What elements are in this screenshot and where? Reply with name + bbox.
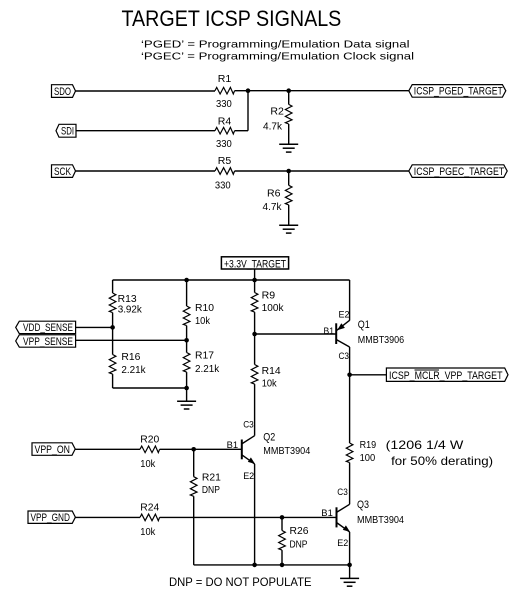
wire Q1 collector down [349,347,351,375]
svg-text:‘PGED’ = Programming/Emulation: ‘PGED’ = Programming/Emulation Data sign… [141,38,410,50]
port VPP_ON [32,443,75,456]
svg-text:10k: 10k [140,459,156,470]
node H junction dot [347,373,352,378]
node rail-R10 junction dot [184,278,189,283]
svg-text:R9: R9 [262,290,276,301]
ground bottom right [340,578,359,586]
wire R4 to riser [235,130,248,132]
svg-text:ICSP_MCLR_VPP_TARGET: ICSP_MCLR_VPP_TARGET [389,370,503,382]
power +3.3V_TARGET [221,257,288,271]
wire node B to ICSP_PGED_TARGET [289,90,409,92]
svg-text:330: 330 [216,99,232,110]
port VPP_SENSE [16,335,76,348]
svg-text:R13: R13 [118,294,137,305]
svg-text:DNP = DO NOT POPULATE: DNP = DO NOT POPULATE [169,575,312,589]
svg-text:DNP: DNP [202,485,220,496]
node F junction dot [184,386,189,391]
svg-text:4.7k: 4.7k [263,122,283,133]
node L junction dot [280,563,285,568]
port ICSP_MCLR_VPP_TARGET [386,368,508,382]
wire power rail [113,279,350,281]
port ICSP_PGED_TARGET [409,85,506,98]
node rail-R9 junction dot [252,278,257,283]
svg-text:E2: E2 [243,471,254,482]
svg-text:R6: R6 [267,189,281,200]
resistor R6 4.7k [263,171,293,225]
transistor Q2 MMBT3904 [242,431,311,464]
transistor Q3 MMBT3904 [337,499,405,532]
node J junction dot [280,515,285,520]
svg-text:2.21k: 2.21k [195,364,220,375]
resistor R10 10k [183,280,214,340]
svg-text:+3.3V_TARGET: +3.3V_TARGET [224,258,286,270]
port SDO [52,85,76,98]
resistor R24 10k [140,503,160,539]
node K junction dot [252,563,257,568]
wire riser to node A [247,91,249,131]
svg-text:C3: C3 [339,351,350,362]
wire node F to ground [186,388,188,401]
resistor R16 2.21k [109,327,146,388]
resistor R14 10k [251,334,281,436]
svg-text:R21: R21 [202,473,221,484]
node C junction dot [286,169,291,174]
port VDD_SENSE [16,321,76,334]
svg-text:for 50% derating): for 50% derating) [391,454,493,468]
svg-text:R26: R26 [290,526,309,537]
ground below R2 [279,144,298,152]
wire node A to node B [248,90,289,92]
wire VDD_SENSE to node D [76,326,113,328]
resistor R9 100k [251,280,284,334]
svg-text:R16: R16 [121,352,140,363]
wire node G to Q1 base [255,333,337,335]
svg-text:4.7k: 4.7k [263,202,283,213]
wire Q3 emitter down [349,532,351,565]
wire node C to ICSP_PGEC_TARGET [289,170,409,172]
svg-text:VPP_SENSE: VPP_SENSE [23,336,73,348]
svg-text:R20: R20 [140,434,159,445]
svg-text:MMBT3904: MMBT3904 [263,445,310,457]
resistor R5 330 [215,156,235,192]
resistor R26 DNP [279,517,309,565]
svg-text:Q2: Q2 [263,431,275,443]
svg-text:MMBT3904: MMBT3904 [357,514,404,526]
svg-text:330: 330 [216,139,232,150]
svg-text:100: 100 [360,453,376,464]
svg-text:MMBT3906: MMBT3906 [358,334,404,346]
wire power stem [254,269,256,280]
ground below R6 [279,225,298,233]
svg-text:10k: 10k [262,379,278,390]
svg-text:E2: E2 [337,538,348,549]
transistor Q1 MMBT3906 [336,319,404,347]
svg-text:SDO: SDO [54,86,71,98]
wire VPP_GND to R24 [75,516,140,518]
svg-text:R1: R1 [218,74,232,85]
svg-text:C3: C3 [337,487,348,498]
svg-text:R2: R2 [270,106,284,117]
wire VPP_ON to R20 [75,448,140,450]
node B junction dot [286,88,291,93]
resistor R4 330 [215,117,235,150]
wire R5 to node C [235,170,289,172]
svg-text:ICSP_PGED_TARGET: ICSP_PGED_TARGET [414,86,503,98]
node A junction dot [246,88,251,93]
svg-text:SDI: SDI [61,126,74,138]
svg-text:B1: B1 [324,326,335,337]
resistor R1 330 [215,74,235,110]
resistor R21 DNP [190,449,221,565]
wire Q2 emitter down [254,464,256,565]
svg-text:VDD_SENSE: VDD_SENSE [23,322,73,334]
node D junction dot [110,325,115,330]
node M junction dot [347,563,352,568]
note 1206 derating [386,438,494,468]
ground below R17 [177,401,196,409]
wire R24 to Q3 base [160,516,337,518]
resistor R2 4.7k [263,91,292,144]
svg-text:R24: R24 [140,503,159,514]
svg-text:10k: 10k [140,527,156,538]
svg-text:C3: C3 [243,419,254,430]
svg-text:‘PGEC’ = Programming/Emulation: ‘PGEC’ = Programming/Emulation Clock sig… [141,51,414,63]
wire R20 to Q2 base [160,448,242,450]
svg-text:100k: 100k [262,303,285,314]
wire SCK to R5 [76,170,216,172]
port ICSP_PGEC_TARGET [409,165,507,178]
svg-text:3.92k: 3.92k [118,305,143,316]
wire Q1 emitter to rail [349,280,351,321]
svg-text:R14: R14 [262,366,281,377]
node E junction dot [184,338,189,343]
svg-text:R10: R10 [195,303,214,314]
svg-text:R17: R17 [195,351,214,362]
svg-text:VPP_ON: VPP_ON [35,444,71,456]
svg-text:SCK: SCK [54,166,71,178]
resistor R17 2.21k [183,340,220,388]
node I junction dot [191,447,196,452]
svg-text:R4: R4 [218,117,232,128]
svg-text:B1: B1 [227,440,239,451]
wire SDI to R4 [76,130,215,132]
svg-text:(1206 1/4 W: (1206 1/4 W [386,438,464,452]
svg-text:DNP: DNP [290,539,308,550]
svg-text:ICSP_PGEC_TARGET: ICSP_PGEC_TARGET [414,166,505,178]
svg-text:10k: 10k [195,316,211,327]
svg-text:E2: E2 [339,310,350,321]
resistor R20 10k [140,434,160,470]
port SDI [56,124,76,137]
svg-text:2.21k: 2.21k [121,365,146,376]
svg-text:VPP_GND: VPP_GND [31,512,71,524]
wire node M to ground [349,565,351,579]
wire node H to ICSP_MCLR port [350,374,387,376]
svg-text:R19: R19 [360,440,377,451]
port VPP_GND [28,511,75,524]
wire bottom row [194,564,350,566]
svg-text:B1: B1 [321,508,333,519]
svg-text:R5: R5 [218,156,232,167]
resistor R19 100 [346,375,376,505]
svg-text:TARGET ICSP SIGNALS: TARGET ICSP SIGNALS [122,6,342,31]
wire R1 to node A [235,90,248,92]
svg-text:330: 330 [215,181,231,192]
node G junction dot [252,332,257,337]
wire VPP_SENSE to node E [76,339,187,341]
resistor R13 3.92k [109,280,143,327]
svg-text:Q3: Q3 [357,499,369,511]
port SCK [52,165,76,178]
wire SDO to R1 [76,90,216,92]
svg-text:Q1: Q1 [358,319,370,331]
wire bottom sense row [113,387,187,389]
